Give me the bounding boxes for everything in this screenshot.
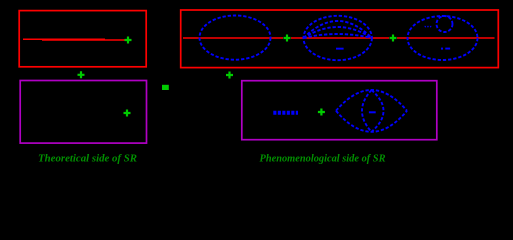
loop: small blue dashed circle (gluon loop) on top arc of diagram 3 — [437, 16, 453, 32]
wire: blue dashed meson line — [273, 111, 298, 115]
wire: red quark line segment 1 — [183, 37, 283, 39]
loop: inner vertical blue dashed lens of the eye — [362, 90, 384, 132]
label: blue dot-dash minus inside lower half of diagram 3 — [441, 48, 443, 50]
node: green plus (current insertion) at right end of propagator — [125, 37, 132, 44]
node: green plus inside right purple box — [318, 109, 325, 116]
node: green plus between top-left red box and purple box — [78, 71, 85, 78]
label: blue minus inside diagram 2 — [336, 48, 344, 50]
loop: diagram 1 blue dashed lens (perturbative loop) — [200, 15, 271, 59]
wire: red quark line segment 3 — [397, 37, 495, 39]
loop: diagram 2 blue dashed lens with nested arcs (gluon condensate) — [304, 16, 372, 60]
loop: diagram 3 blue dashed lens (quark condensate with gluon) — [408, 16, 478, 60]
label: blue minus at center of the eye — [369, 111, 376, 113]
node: green plus between diagram 1 and diagram 2 — [284, 35, 291, 42]
svg-text:Theoretical side of SR: Theoretical side of SR — [38, 152, 137, 164]
wire: red quark propagator line in top-left box — [23, 38, 126, 41]
loop: outer blue dashed eye (continuum contribution) — [336, 90, 407, 132]
svg-text:Phenomenological side of SR: Phenomenological side of SR — [260, 152, 386, 164]
box: bare quark loop (theoretical, top-left red rectangle) — [19, 11, 146, 67]
box: purple rectangle (left, empty with plus) — [20, 81, 146, 144]
node: green plus inside left purple box — [124, 110, 131, 117]
node: green plus below big red rectangle — [226, 72, 233, 79]
label: three tiny blue marks left of circle in diagram 3 — [424, 26, 431, 28]
wire: red quark line segment 2 — [291, 37, 389, 39]
node: green plus between diagram 2 and diagram 3 — [390, 35, 397, 42]
box: big red rectangle (OPE side with condensate diagrams) — [181, 10, 499, 68]
box: purple rectangle (right, phenomenological side) — [242, 81, 437, 140]
node: green equals marker between left and right halves — [162, 85, 169, 90]
